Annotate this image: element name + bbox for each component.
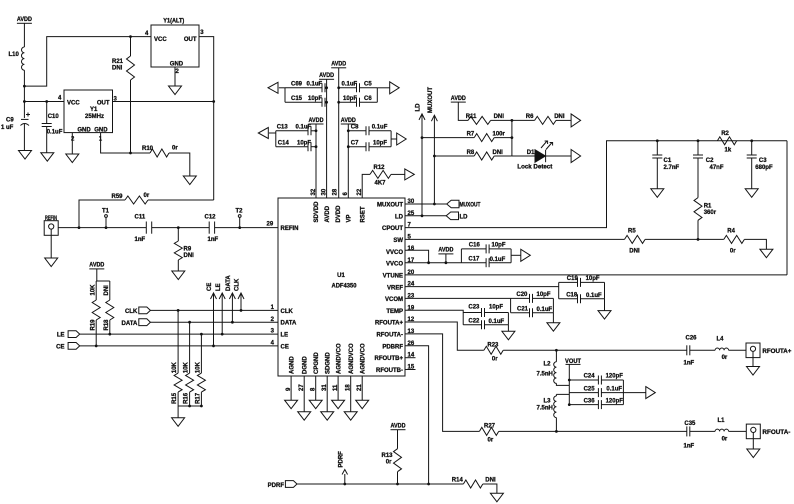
svg-text:360r: 360r xyxy=(704,210,717,216)
net arrow R6 xyxy=(571,114,581,127)
wire AVDD to pullups xyxy=(96,269,98,281)
wire LE row pin 3 xyxy=(80,333,278,335)
inductor L4 0r xyxy=(715,348,729,350)
ground pulldowns xyxy=(172,418,185,427)
svg-text:U1: U1 xyxy=(337,273,345,279)
svg-text:0r: 0r xyxy=(722,437,728,443)
svg-text:0r: 0r xyxy=(386,460,392,466)
svg-text:R11: R11 xyxy=(466,114,477,120)
svg-text:10pF: 10pF xyxy=(492,242,506,248)
svg-text:C19: C19 xyxy=(567,276,579,282)
svg-text:R1: R1 xyxy=(704,204,712,210)
svg-text:C21: C21 xyxy=(517,306,529,312)
svg-text:R5: R5 xyxy=(628,229,636,235)
svg-text:C36: C36 xyxy=(584,399,596,405)
ground C10 xyxy=(41,153,54,162)
svg-text:25MHz: 25MHz xyxy=(85,114,104,120)
capacitor C20 10pF xyxy=(511,297,530,299)
wire Y1(ALT) GND to ground xyxy=(174,67,176,86)
wire RFOUTA- connector ground xyxy=(752,439,754,449)
testpoint T2 xyxy=(239,218,241,228)
wire RFOUTA+ connector ground xyxy=(752,358,754,367)
svg-text:C35: C35 xyxy=(684,421,696,427)
svg-text:VVCO: VVCO xyxy=(386,262,403,268)
svg-text:C10: C10 xyxy=(48,114,60,120)
wire L10 down to C9 node xyxy=(23,70,25,118)
wire AVDD stub VVCO xyxy=(445,254,447,263)
svg-text:Y1(ALT): Y1(ALT) xyxy=(163,19,184,25)
svg-text:C9: C9 xyxy=(6,118,14,124)
wire Y1 OUT row xyxy=(113,101,214,103)
wire Y1 VCC row xyxy=(24,101,64,103)
svg-text:10pF: 10pF xyxy=(586,276,600,282)
connector CLK xyxy=(139,307,151,314)
svg-text:DGND: DGND xyxy=(302,356,308,374)
svg-text:CE: CE xyxy=(281,344,289,350)
svg-text:R10: R10 xyxy=(142,146,154,152)
wire VVCO pin16 to pin17 xyxy=(405,250,429,263)
svg-text:AVDD: AVDD xyxy=(319,73,335,79)
svg-text:R59: R59 xyxy=(112,194,124,200)
wire Y1 GND pin2 to ground xyxy=(71,133,73,154)
resistor R8 DNI xyxy=(434,155,474,157)
capacitor C9 1uF polarized xyxy=(26,114,30,116)
svg-text:AGNDVCO: AGNDVCO xyxy=(360,343,366,374)
capacitor C22 0.1uF xyxy=(463,324,481,326)
svg-text:RFOUTA+: RFOUTA+ xyxy=(762,349,792,355)
capacitor C24 120pF xyxy=(569,379,598,381)
capacitor C12 1nF xyxy=(209,222,214,234)
svg-text:RFOUTB+: RFOUTB+ xyxy=(375,356,404,362)
svg-text:10pF: 10pF xyxy=(489,305,503,311)
svg-text:R16: R16 xyxy=(184,392,190,404)
svg-text:AVDD: AVDD xyxy=(331,62,347,68)
svg-text:0.1uF: 0.1uF xyxy=(372,124,388,130)
wire DVDD pin28 rail xyxy=(338,68,340,198)
capacitor C14 10pF xyxy=(276,146,308,148)
capacitor C18 0.1uF xyxy=(559,298,578,300)
capacitor C17 0.1uF xyxy=(461,262,486,264)
capacitor C25 0.1uF xyxy=(569,392,598,394)
wire LED to arrow xyxy=(546,155,572,157)
capacitor C5 0.1uF xyxy=(339,87,357,89)
svg-text:LD: LD xyxy=(395,214,404,220)
wire right vertical + arrow xyxy=(376,88,378,103)
svg-text:L10: L10 xyxy=(9,52,20,58)
svg-text:R17: R17 xyxy=(196,392,202,404)
svg-text:LD: LD xyxy=(416,103,422,112)
wire VTUNE row pin 20 xyxy=(405,274,787,276)
svg-text:4K7: 4K7 xyxy=(375,181,387,187)
ground Y1 pin2 xyxy=(66,154,79,163)
svg-text:0r: 0r xyxy=(172,146,178,152)
svg-text:LE: LE xyxy=(216,283,222,291)
IC bottom ground pins xyxy=(290,376,292,400)
svg-text:OUT: OUT xyxy=(184,37,197,43)
svg-text:PDRF: PDRF xyxy=(339,451,345,468)
svg-text:C14: C14 xyxy=(278,140,290,146)
SMA connector RFOUTA- xyxy=(746,424,760,439)
ground IC pin xyxy=(356,400,369,409)
svg-text:7.5nH: 7.5nH xyxy=(537,371,553,377)
svg-text:C8: C8 xyxy=(351,124,359,130)
svg-text:DATA: DATA xyxy=(122,321,138,327)
svg-text:REFIN: REFIN xyxy=(281,226,299,232)
svg-text:RFOUTB-: RFOUTB- xyxy=(376,368,403,374)
svg-text:7.5nH: 7.5nH xyxy=(537,405,553,411)
svg-text:29: 29 xyxy=(267,222,274,228)
resistor R59 0r xyxy=(79,200,125,228)
svg-text:CLK: CLK xyxy=(281,309,294,315)
ground Y1(ALT) xyxy=(169,86,182,95)
resistor R11 DNI xyxy=(468,116,491,124)
wire VCOM pin23 row xyxy=(405,297,511,299)
resistor R5 DNI xyxy=(625,235,646,243)
inductor L10 xyxy=(21,47,24,70)
resistor R12 4K7 xyxy=(362,174,370,198)
resistor R23 0r xyxy=(484,346,503,354)
svg-text:T2: T2 xyxy=(236,209,244,215)
svg-text:1nF: 1nF xyxy=(684,361,695,367)
net flag CLK xyxy=(240,293,242,310)
svg-text:L4: L4 xyxy=(717,337,725,343)
svg-text:0.1uF: 0.1uF xyxy=(586,293,602,299)
resistor R1 360r xyxy=(694,198,702,221)
ground RFOUTA- xyxy=(747,449,760,458)
resistor R17 10K pulldown xyxy=(200,333,203,336)
svg-text:GND: GND xyxy=(94,127,108,133)
wire left vertical + arrow C13/C14 xyxy=(275,131,277,147)
svg-text:AVDD: AVDD xyxy=(341,118,357,124)
svg-text:C22: C22 xyxy=(468,319,480,325)
capacitor C69 0.1uF xyxy=(285,87,322,89)
wire VP pin6 rail xyxy=(347,124,349,198)
wire CPOUT pin7 to loop filter xyxy=(405,141,787,228)
resistor R18 DNI pullup xyxy=(109,281,111,300)
svg-text:120pF: 120pF xyxy=(606,374,624,380)
wire MUXOUT row pin 30 xyxy=(405,203,447,205)
svg-text:T1: T1 xyxy=(102,209,110,215)
svg-text:DNI: DNI xyxy=(184,253,195,259)
wire VVCO pin17 row xyxy=(405,262,461,264)
ground R14 xyxy=(490,493,503,502)
wire RFOUTA+ pin12 to R23 xyxy=(405,322,484,350)
svg-text:CE: CE xyxy=(56,345,64,351)
svg-text:2.7nF: 2.7nF xyxy=(664,165,680,171)
capacitor C23 10pF xyxy=(463,312,481,314)
ground R10 xyxy=(183,176,196,185)
resistor R21 DNI xyxy=(130,37,132,56)
svg-text:AGND: AGND xyxy=(289,356,295,374)
pin stubs RFOUTB+ RFOUTB- xyxy=(405,357,416,359)
capacitor C11 1nF xyxy=(146,222,151,234)
svg-text:100r: 100r xyxy=(493,131,506,137)
ground IC pin xyxy=(285,400,298,409)
svg-text:AVDD: AVDD xyxy=(438,248,454,254)
wire lock-detect node vertical xyxy=(511,120,513,156)
svg-text:R6: R6 xyxy=(526,114,534,120)
svg-text:REFIN: REFIN xyxy=(45,216,57,222)
wire pulldown common to ground xyxy=(178,405,201,407)
crystal oscillator Y1 25MHz xyxy=(64,90,113,133)
wire left vertical + arrow xyxy=(284,88,286,103)
svg-text:1nF: 1nF xyxy=(135,237,146,243)
svg-text:C15: C15 xyxy=(291,96,303,102)
ground IC pin xyxy=(332,400,345,409)
svg-text:AGNDVCO: AGNDVCO xyxy=(336,343,342,374)
svg-text:1 uF: 1 uF xyxy=(1,125,14,131)
svg-text:VCC: VCC xyxy=(67,100,80,106)
svg-text:C13: C13 xyxy=(277,124,289,130)
svg-text:VCOM: VCOM xyxy=(385,297,403,303)
svg-text:10pF: 10pF xyxy=(373,140,387,146)
svg-text:AVDD: AVDD xyxy=(17,17,33,23)
svg-text:L2: L2 xyxy=(544,361,552,367)
svg-text:TEMP: TEMP xyxy=(386,309,403,315)
net arrow R12 xyxy=(405,169,415,180)
resistor R2 1k xyxy=(717,137,736,145)
ground IC pin xyxy=(344,412,357,421)
connector MUXOUT xyxy=(447,200,459,208)
svg-text:10pF: 10pF xyxy=(297,140,311,146)
svg-text:VREF: VREF xyxy=(387,285,403,291)
svg-text:10K: 10K xyxy=(184,361,190,373)
svg-text:0.1uF: 0.1uF xyxy=(606,387,622,393)
resistor R16 10K pulldown xyxy=(188,321,191,324)
svg-text:R12: R12 xyxy=(374,165,386,171)
svg-text:10K: 10K xyxy=(172,361,178,373)
svg-text:GND: GND xyxy=(170,62,184,68)
ground C18/C19 xyxy=(598,311,611,320)
svg-text:R4: R4 xyxy=(727,229,735,235)
capacitor C3 680pF xyxy=(751,141,753,155)
svg-text:10K: 10K xyxy=(196,361,202,373)
ground IC pin xyxy=(298,412,311,421)
svg-text:DNI: DNI xyxy=(554,114,565,120)
svg-text:10K: 10K xyxy=(90,284,96,296)
svg-text:0r: 0r xyxy=(722,355,728,361)
wire Y1(ALT) OUT down to REFIN node xyxy=(199,37,214,200)
svg-text:RFOUTA-: RFOUTA- xyxy=(762,430,790,436)
svg-text:CLK: CLK xyxy=(235,278,241,291)
capacitor C6 10pF xyxy=(339,101,357,103)
svg-text:R15: R15 xyxy=(172,392,178,404)
wire C24/25/36 right vertical + arrow xyxy=(622,380,624,405)
svg-text:0.1uF: 0.1uF xyxy=(342,82,358,88)
svg-text:L3: L3 xyxy=(544,399,552,405)
svg-text:Lock Detect: Lock Detect xyxy=(517,164,552,170)
svg-text:C17: C17 xyxy=(468,256,480,262)
wire REFIN to ground xyxy=(50,235,52,258)
svg-text:DVDD: DVDD xyxy=(336,205,342,223)
capacitor C10 0.1uF xyxy=(46,102,48,124)
svg-text:0.1uF: 0.1uF xyxy=(296,124,312,130)
svg-text:1nF: 1nF xyxy=(208,237,219,243)
resistor R10 0r xyxy=(150,149,169,157)
svg-text:DATA: DATA xyxy=(281,321,297,327)
capacitor C35 1nF xyxy=(686,426,688,436)
svg-text:C12: C12 xyxy=(205,215,217,221)
svg-text:0.1uF: 0.1uF xyxy=(47,130,63,136)
capacitor C15 10pF xyxy=(285,101,322,103)
svg-text:C23: C23 xyxy=(468,305,480,311)
svg-text:C11: C11 xyxy=(135,215,146,221)
svg-text:RSET: RSET xyxy=(360,206,366,222)
svg-text:PDRF: PDRF xyxy=(268,483,285,489)
ground IC pin xyxy=(321,412,334,421)
ground REFIN xyxy=(45,258,58,267)
svg-text:DNI: DNI xyxy=(112,66,123,72)
ground C9 xyxy=(19,151,32,160)
svg-text:CPGND: CPGND xyxy=(314,352,320,374)
svg-text:C5: C5 xyxy=(364,82,372,88)
resistor R6 DNI xyxy=(535,116,556,124)
svg-text:0r: 0r xyxy=(488,438,494,444)
svg-text:0.1uF: 0.1uF xyxy=(489,319,505,325)
svg-text:LD: LD xyxy=(460,215,469,221)
resistor R27 0r xyxy=(479,427,498,435)
svg-text:10pF: 10pF xyxy=(308,96,322,102)
svg-text:0.1uF: 0.1uF xyxy=(307,82,323,88)
wire right vertical + arrow C8/C7 xyxy=(390,131,392,147)
wire LD row pin 25 xyxy=(405,215,446,217)
svg-text:AVDD: AVDD xyxy=(309,118,325,124)
svg-text:R21: R21 xyxy=(112,59,124,65)
wire loop filter to VTUNE xyxy=(786,141,788,275)
svg-text:0r: 0r xyxy=(730,248,736,254)
svg-text:PDBRF: PDBRF xyxy=(382,344,403,350)
ground IC pin xyxy=(309,400,322,409)
SMA connector RFOUTA+ xyxy=(746,343,760,358)
svg-text:Y1: Y1 xyxy=(90,107,98,113)
svg-text:R2: R2 xyxy=(721,131,729,137)
capacitor C8 0.1uF xyxy=(348,130,366,132)
wire to Y1(ALT) VCC rail xyxy=(24,37,151,87)
net flag CE xyxy=(213,293,215,346)
inductor L3 7.5nH xyxy=(556,394,569,396)
svg-text:C69: C69 xyxy=(291,82,303,88)
ground RFOUTA+ xyxy=(747,367,760,376)
svg-text:GND: GND xyxy=(77,127,91,133)
wire PDBRF pin26 down xyxy=(405,346,463,484)
ground R9 xyxy=(172,271,185,280)
inductor L1 0r xyxy=(715,429,729,431)
capacitor C2 47nF xyxy=(697,141,699,155)
svg-text:MUXOUT: MUXOUT xyxy=(428,87,434,113)
ground C3 xyxy=(745,189,758,198)
wire VREF pin24 row xyxy=(405,286,559,288)
wire RFOUTA- pin13 to R27 xyxy=(405,334,479,432)
connector LE xyxy=(68,331,80,338)
svg-text:C20: C20 xyxy=(516,292,528,298)
svg-text:AVDD: AVDD xyxy=(89,263,105,269)
svg-text:C1: C1 xyxy=(664,158,672,164)
svg-text:DATA: DATA xyxy=(226,275,232,291)
LED D1 Lock Detect xyxy=(512,155,535,157)
capacitor C36 120pF xyxy=(569,404,598,406)
capacitor C19 10pF xyxy=(559,281,578,283)
wire AVDD to L10 xyxy=(23,23,25,47)
svg-text:D1: D1 xyxy=(527,150,535,156)
svg-text:CPOUT: CPOUT xyxy=(382,226,403,232)
svg-text:ADF4350: ADF4350 xyxy=(332,284,358,290)
resistor R9 DNI xyxy=(177,228,179,241)
svg-text:SDVDD: SDVDD xyxy=(314,201,320,223)
svg-text:R18: R18 xyxy=(104,319,110,331)
wire C16/C17 verticals + arrow xyxy=(460,249,462,263)
wire CLK row pin 1 xyxy=(150,309,278,311)
svg-text:LE: LE xyxy=(281,333,289,339)
svg-text:120pF: 120pF xyxy=(606,399,624,405)
svg-text:SW: SW xyxy=(393,238,403,244)
svg-text:C7: C7 xyxy=(351,140,359,146)
wire PDRF row xyxy=(297,483,429,485)
resistor R14 DNI xyxy=(463,480,482,488)
connector LD xyxy=(446,212,458,220)
capacitor C21 0.1uF xyxy=(511,312,530,314)
svg-text:C2: C2 xyxy=(706,158,714,164)
wire C20/C21 verticals + ground xyxy=(510,298,512,312)
svg-text:VP: VP xyxy=(347,214,353,222)
svg-text:28: 28 xyxy=(332,188,338,195)
wire AVDD pin30 rail xyxy=(326,79,328,198)
svg-text:C18: C18 xyxy=(566,293,578,299)
connector CE xyxy=(68,343,80,350)
svg-text:0.1uF: 0.1uF xyxy=(490,257,506,263)
ground R4 xyxy=(760,249,773,258)
svg-text:0r: 0r xyxy=(492,357,498,363)
SMA connector REFIN xyxy=(44,221,58,236)
svg-text:C16: C16 xyxy=(469,242,481,248)
capacitor C7 10pF xyxy=(348,146,366,148)
connector PDRF xyxy=(285,481,297,488)
svg-text:CLK: CLK xyxy=(125,309,138,315)
svg-text:R8: R8 xyxy=(467,150,475,156)
capacitor C1 2.7nF xyxy=(656,141,658,155)
svg-text:10pF: 10pF xyxy=(343,96,357,102)
svg-text:R9: R9 xyxy=(184,247,192,253)
svg-text:0r: 0r xyxy=(144,193,150,199)
wire C19/C18 verticals + ground xyxy=(558,282,560,298)
capacitor C13 0.1uF xyxy=(276,130,308,132)
capacitor C16 10pF xyxy=(461,248,486,250)
svg-text:DNI: DNI xyxy=(629,248,640,254)
wire REFIN row to IC pin 29 xyxy=(58,227,278,229)
svg-text:DNI: DNI xyxy=(493,150,504,156)
net flag DATA xyxy=(231,293,233,322)
testpoint T1 xyxy=(105,218,107,228)
svg-text:47nF: 47nF xyxy=(710,165,724,171)
wire C23/C22 verticals + ground xyxy=(462,313,464,325)
svg-text:680pF: 680pF xyxy=(755,165,773,171)
wire Y1 GND pin1 to R10 row xyxy=(101,133,150,153)
svg-text:C6: C6 xyxy=(364,96,372,102)
net flag LD vertical xyxy=(421,115,423,216)
svg-text:0.1uF: 0.1uF xyxy=(537,307,553,313)
resistor R15 10K pulldown xyxy=(177,309,180,312)
wire SW row pin 5 xyxy=(405,238,625,240)
svg-text:R14: R14 xyxy=(452,478,464,484)
svg-text:10pF: 10pF xyxy=(537,292,551,298)
net flag MUXOUT vertical xyxy=(433,116,435,204)
svg-text:C3: C3 xyxy=(759,158,767,164)
svg-text:LE: LE xyxy=(57,333,65,339)
svg-text:1nF: 1nF xyxy=(684,443,695,449)
svg-text:C26: C26 xyxy=(686,336,698,342)
crystal oscillator Y1(ALT) xyxy=(151,25,199,67)
resistor R7 100r xyxy=(422,137,474,139)
svg-text:VTUNE: VTUNE xyxy=(383,273,403,279)
